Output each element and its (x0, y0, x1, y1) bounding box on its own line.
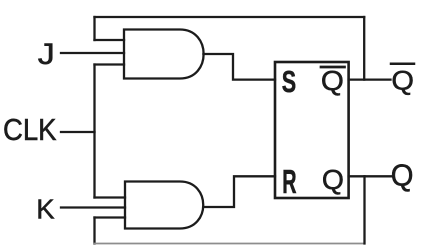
overbar: Q-bar pin label (321, 66, 345, 69)
svg-text:Q: Q (322, 164, 344, 195)
AND gate U1 (J CLK Qbar) (124, 30, 204, 79)
svg-text:Q: Q (321, 65, 344, 96)
wire: Q output (349, 175, 391, 177)
wire: J input to AND1 pin 2 (61, 52, 124, 54)
svg-text:K: K (36, 193, 55, 224)
svg-text:S: S (282, 64, 296, 99)
wire: K input to AND2 pin 2 (61, 206, 125, 208)
svg-text:R: R (282, 163, 297, 201)
wire: Q-bar feedback vertical right (from Q-bar node up) (363, 17, 365, 80)
overbar: Q-bar terminal (391, 62, 414, 65)
wire: stub into AND2 pin 1 (CLK) (95, 196, 126, 198)
svg-text:Q: Q (391, 159, 414, 193)
wire: Q feedback left vertical drop (93, 218, 95, 244)
wire: CLK trunk vertical (93, 65, 95, 198)
wire: Q-bar output (349, 78, 391, 80)
wire: AND1 output to S input (203, 54, 275, 80)
SR latch U3 box (275, 62, 349, 198)
wire: AND2 output to R input (204, 176, 276, 207)
wire: stub into AND2 pin 3 (Q feedback) (95, 216, 126, 218)
svg-text:CLK: CLK (3, 114, 57, 147)
wire: stub into AND1 pin 1 (95, 39, 125, 41)
wire: stub into AND1 pin 3 (CLK) (95, 63, 125, 65)
wire: CLK input horizontal (61, 131, 95, 133)
wire: Q-bar feedback left vertical drop (93, 17, 95, 40)
svg-text:J: J (38, 37, 55, 71)
svg-text:Q: Q (391, 65, 414, 95)
AND gate U2 (CLK K Q) (125, 182, 203, 229)
wire: Q feedback vertical right (down from Q node) (363, 176, 365, 243)
wire: Q feedback bottom horizontal run (95, 243, 365, 245)
wire: Q-bar feedback top horizontal run (95, 16, 365, 18)
